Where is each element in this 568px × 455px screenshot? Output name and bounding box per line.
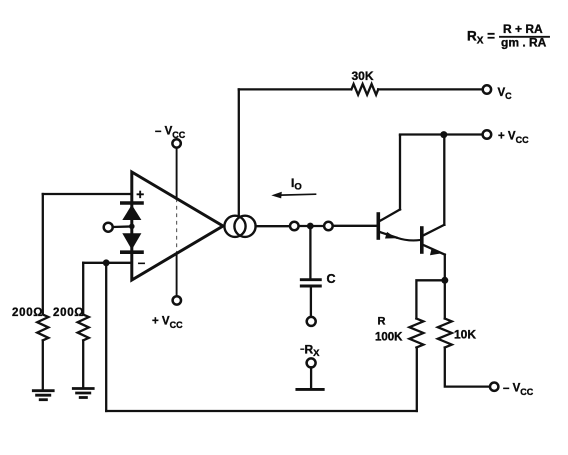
arrow Io (pointing left) xyxy=(271,192,315,199)
wire Rx terminal to bar xyxy=(310,367,312,388)
diode D2 (bottom, cathode down) xyxy=(122,233,142,252)
svg-text:+ VCC: + VCC xyxy=(152,316,183,331)
svg-text:200Ω: 200Ω xyxy=(53,307,84,319)
svg-text:gm . RA: gm . RA xyxy=(501,36,547,50)
svg-text:200Ω: 200Ω xyxy=(12,307,43,319)
svg-text:– VCC: – VCC xyxy=(503,383,534,398)
svg-text:+: + xyxy=(136,187,144,202)
resistor R 100K xyxy=(409,319,423,348)
node Rx bottom bar xyxy=(297,388,323,391)
ground right xyxy=(73,389,93,398)
wire 200ohm right to ground xyxy=(82,341,84,388)
resistor 30K xyxy=(351,84,378,95)
wire 30K to Vc xyxy=(378,88,482,90)
transistor Q1 xyxy=(378,210,400,239)
svg-text:+ VCC: + VCC xyxy=(498,131,529,146)
svg-text:– VCC: – VCC xyxy=(155,126,186,141)
wire to Q1 base xyxy=(333,225,377,227)
svg-text:R: R xyxy=(378,316,386,328)
wire + input down to R 200ohm left xyxy=(42,194,44,314)
wire + input xyxy=(43,193,132,195)
svg-text:–: – xyxy=(138,255,146,270)
wire feedback down xyxy=(105,263,107,411)
wire current source output xyxy=(256,225,290,227)
terminal +Vcc xyxy=(483,130,492,139)
terminal -Vcc op-amp xyxy=(172,139,180,147)
svg-text:100K: 100K xyxy=(375,332,403,344)
current source U2 xyxy=(224,216,255,237)
terminal (open circle) on output rail right xyxy=(324,222,333,231)
ground left xyxy=(33,391,53,400)
terminal capacitor bottom xyxy=(307,317,316,326)
wire Q2 emitter down xyxy=(444,255,446,281)
label R 100K xyxy=(375,316,403,344)
svg-text:IO: IO xyxy=(291,176,302,193)
wire between terminals xyxy=(299,225,325,227)
terminal +Vcc op-amp xyxy=(173,296,181,304)
svg-text:VC: VC xyxy=(498,87,513,101)
wire midpoint to input terminal xyxy=(113,225,130,228)
wire - input xyxy=(83,262,132,264)
transistor Q2 xyxy=(422,225,445,255)
wire emitter junction to 100K xyxy=(416,280,444,318)
terminal -Vcc xyxy=(490,383,498,391)
resistor 200ohm left xyxy=(37,315,48,341)
wire Q2 collector up xyxy=(443,135,445,225)
wire feedback bottom rail xyxy=(106,410,417,412)
wire top rail to 30K xyxy=(239,88,351,90)
node emitter junction xyxy=(441,277,448,284)
wire Q1 emitter to Q2 base xyxy=(397,238,421,241)
wire current-source to top rail xyxy=(238,89,240,216)
formula Rx = (R+RA)/(gm.RA) xyxy=(467,22,549,50)
svg-text:30K: 30K xyxy=(352,69,374,83)
svg-text:RX: RX xyxy=(305,343,321,360)
node +Vcc rail junction xyxy=(440,131,447,138)
wire emitter junction to 10K xyxy=(444,280,446,318)
resistor 10K xyxy=(438,319,452,348)
svg-text:R + RA: R + RA xyxy=(503,22,543,36)
svg-text:10K: 10K xyxy=(454,328,476,342)
node feedback junction xyxy=(103,259,110,266)
svg-text:RX =: RX = xyxy=(467,29,495,47)
terminal Vc xyxy=(483,85,491,93)
node capacitor tap xyxy=(307,223,314,230)
wire - input down to R 200ohm right xyxy=(82,263,84,314)
svg-text:C: C xyxy=(327,272,336,286)
wire feedback up to 100K xyxy=(416,348,418,412)
wire -Vcc to op-amp xyxy=(176,148,178,297)
terminal input (diode midpoint) xyxy=(104,223,113,232)
node diode midpoint xyxy=(129,224,135,230)
wire 200ohm left to ground xyxy=(42,341,44,391)
capacitor C xyxy=(301,226,320,317)
wire 10K to -Vcc xyxy=(445,348,490,387)
wire Q1 collector up xyxy=(399,135,401,210)
op-amp U1 xyxy=(132,172,223,280)
wire +Vcc rail xyxy=(400,133,483,136)
terminal Rx xyxy=(307,358,316,367)
terminal (open circle) on output rail left xyxy=(290,222,299,231)
diode D1 (top, cathode up) xyxy=(122,203,142,220)
resistor 200ohm right xyxy=(78,315,89,341)
